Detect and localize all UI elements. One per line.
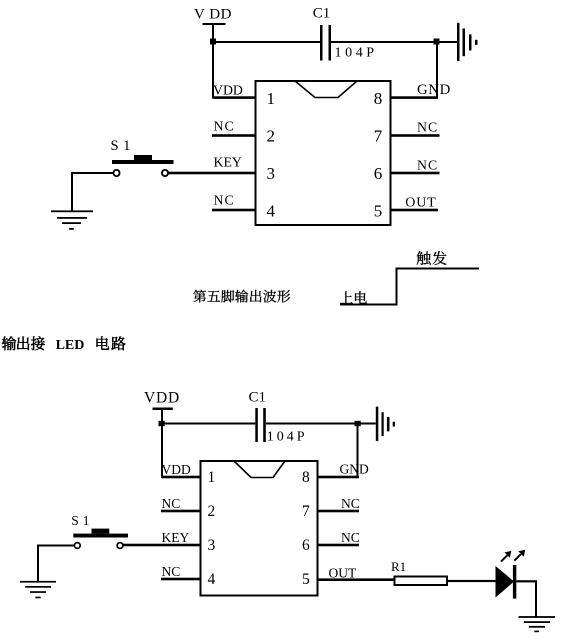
svg-text:KEY: KEY	[162, 530, 190, 545]
pin 1 wire (LED circuit)	[162, 476, 200, 479]
LED D1 light arrow 2 (LED circuit)	[514, 550, 525, 561]
LED D1 triangle (LED circuit)	[496, 566, 515, 598]
svg-text:7: 7	[374, 127, 383, 146]
ground (LED circuit, right, rotated)	[376, 407, 395, 441]
node GND junction (top circuit)	[434, 39, 440, 45]
svg-text:C1: C1	[249, 390, 267, 406]
wire VDD rail to C1 left plate (LED circuit)	[162, 423, 255, 425]
pin 4 wire (LED circuit)	[161, 578, 200, 581]
svg-text:NC: NC	[162, 496, 181, 511]
svg-text:NC: NC	[341, 530, 360, 545]
LED D1 light arrow 1 (LED circuit)	[501, 551, 511, 562]
svg-text:1: 1	[208, 469, 216, 486]
wire GND vertical to pin 8 (top circuit)	[436, 43, 438, 99]
svg-text:1: 1	[267, 89, 276, 108]
pin 5 wire OUT to resistor R1 (LED circuit)	[319, 578, 395, 581]
svg-text:4: 4	[267, 202, 276, 221]
ground (top circuit, below switch)	[51, 210, 93, 229]
svg-text:104P: 104P	[267, 429, 308, 444]
svg-text:OUT: OUT	[329, 566, 357, 581]
svg-text:NC: NC	[214, 193, 235, 208]
svg-text:8: 8	[302, 469, 310, 486]
svg-text:104P: 104P	[335, 45, 378, 60]
waveform low segment	[340, 304, 398, 306]
svg-text:4: 4	[208, 571, 216, 588]
pin 2 wire (LED circuit)	[161, 510, 200, 513]
svg-text:S1: S1	[111, 138, 135, 154]
waveform label 触发	[417, 251, 447, 265]
pin 2 wire (top circuit)	[212, 134, 255, 137]
svg-text:NC: NC	[162, 564, 181, 579]
pin 1 wire (top circuit)	[213, 96, 255, 99]
svg-text:VDD: VDD	[213, 83, 243, 98]
svg-text:NC: NC	[341, 496, 360, 511]
svg-text:NC: NC	[417, 157, 438, 172]
pin 8 wire (LED circuit)	[319, 476, 360, 479]
svg-text:VDD: VDD	[144, 389, 180, 406]
svg-text:C1: C1	[313, 6, 331, 22]
switch S1 pushbutton (top circuit)	[112, 155, 174, 176]
pin 4 wire (top circuit)	[212, 209, 255, 212]
svg-text:8: 8	[374, 89, 383, 108]
capacitor C1 (top circuit)	[320, 25, 331, 61]
waveform caption 第五脚输出波形	[193, 290, 290, 303]
wire LED cathode to ground (LED circuit)	[516, 580, 537, 617]
wire C1 right plate to ground (top circuit)	[331, 41, 457, 43]
pin 7 wire (LED circuit)	[319, 510, 360, 513]
svg-text:GND: GND	[417, 82, 451, 98]
waveform high segment	[396, 268, 480, 270]
svg-text:OUT: OUT	[405, 196, 436, 211]
svg-text:LED: LED	[56, 338, 85, 353]
section heading 输出接LED 电路	[2, 336, 126, 353]
svg-text:2: 2	[208, 503, 216, 520]
svg-text:R1: R1	[391, 559, 406, 574]
pin 7 wire (top circuit)	[392, 134, 440, 137]
pin 6 wire (top circuit)	[392, 172, 440, 175]
svg-text:V DD: V DD	[194, 6, 232, 22]
svg-text:6: 6	[374, 164, 383, 183]
wire VDD vertical (top circuit)	[212, 24, 214, 99]
svg-text:7: 7	[302, 503, 310, 520]
svg-text:5: 5	[302, 571, 310, 588]
svg-text:NC: NC	[214, 119, 235, 134]
pin 5 wire OUT (top circuit)	[392, 209, 439, 212]
node GND junction (LED circuit)	[355, 421, 361, 426]
wire VDD rail to C1 left plate (top circuit)	[213, 41, 321, 43]
IC U1 pin-1 notch (top circuit)	[295, 81, 357, 98]
ground (LED circuit, below switch)	[20, 581, 56, 598]
svg-text:3: 3	[208, 537, 216, 554]
svg-text:5: 5	[374, 202, 383, 221]
wire switch S1 left terminal to ground (LED circuit)	[37, 545, 74, 582]
power VDD rail bar (top circuit)	[203, 23, 226, 25]
svg-text:3: 3	[267, 164, 276, 183]
svg-text:2: 2	[267, 127, 276, 146]
svg-text:VDD: VDD	[162, 462, 191, 477]
ground (LED circuit, below LED)	[519, 616, 556, 632]
wire switch S1 left terminal to ground (top circuit)	[71, 172, 113, 212]
capacitor C1 (LED circuit)	[255, 408, 266, 442]
pin 8 wire (top circuit)	[392, 96, 439, 99]
pin 3 wire KEY (LED circuit)	[123, 544, 200, 547]
power VDD rail bar (LED circuit)	[153, 408, 173, 411]
svg-text:S1: S1	[71, 513, 93, 528]
svg-text:GND: GND	[340, 462, 369, 477]
LED D1 cathode bar (LED circuit)	[513, 565, 516, 599]
IC U1 body (top circuit)	[256, 81, 391, 225]
svg-text:KEY: KEY	[214, 155, 242, 170]
waveform label 上电	[340, 291, 367, 303]
svg-text:6: 6	[302, 537, 310, 554]
node VDD junction (LED circuit)	[159, 421, 165, 426]
pin 6 wire (LED circuit)	[319, 544, 360, 547]
wire R1 to LED anode (LED circuit)	[448, 580, 496, 582]
switch S1 pushbutton (LED circuit)	[73, 529, 128, 549]
wire GND vertical to pin 8 (LED circuit)	[357, 424, 359, 478]
waveform rising edge	[396, 268, 398, 306]
wire VDD vertical (LED circuit)	[161, 409, 163, 478]
ground (top circuit, right, rotated)	[457, 23, 478, 61]
resistor R1 (LED circuit)	[395, 577, 448, 586]
IC U1 pin-1 notch (LED circuit)	[234, 461, 285, 478]
IC U1 body (LED circuit)	[201, 461, 318, 596]
pin 3 wire KEY (top circuit)	[168, 172, 254, 175]
svg-text:NC: NC	[417, 119, 438, 134]
wire C1 right plate to ground (LED circuit)	[266, 423, 376, 425]
node VDD junction (top circuit)	[210, 39, 216, 45]
